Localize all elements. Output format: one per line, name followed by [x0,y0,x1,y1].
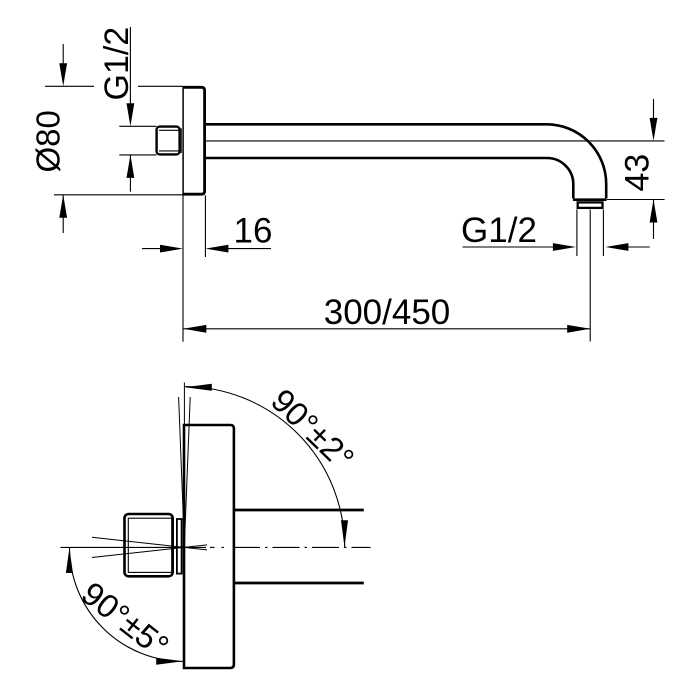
angle dimension arc 90+-2 [185,384,348,548]
flange wall plate (side view) [183,86,205,195]
dimension 300/450 (arm length) [183,210,590,342]
shower arm pipe with 90 degree elbow (side view) [206,124,607,198]
svg-text:G1/2: G1/2 [98,27,136,101]
tolerance fan lines +-5 deg (axis direction) [92,537,207,557]
dimension G1/2 (outlet) [463,210,650,257]
pipe (enlarged) [234,510,363,583]
threaded nipple G1/2 (side view) [157,127,182,155]
outlet thread collar G1/2 [578,202,603,208]
svg-text:16: 16 [234,211,273,250]
angle dimension arc 90+-5 [66,547,184,664]
axis centerline (dash-dot) [61,546,371,548]
dimension 43 (drop) [607,99,665,239]
threaded plug (enlarged) [125,514,182,576]
svg-text:Ø80: Ø80 [29,110,66,172]
dimension G1/2 (wall nipple) [119,27,156,192]
svg-text:43: 43 [619,154,657,192]
pipe centerline (also top reference of 43 dim) [206,140,665,142]
dimension Ø80 [45,44,183,233]
dimension 16 (flange depth) [142,195,271,341]
tolerance fan lines +-2 deg (wall direction) [179,383,191,554]
svg-text:G1/2: G1/2 [461,211,537,250]
flange wall plate (front-on side view, enlarged) [184,425,234,668]
svg-text:300/450: 300/450 [324,293,451,332]
outlet end face [573,198,607,201]
